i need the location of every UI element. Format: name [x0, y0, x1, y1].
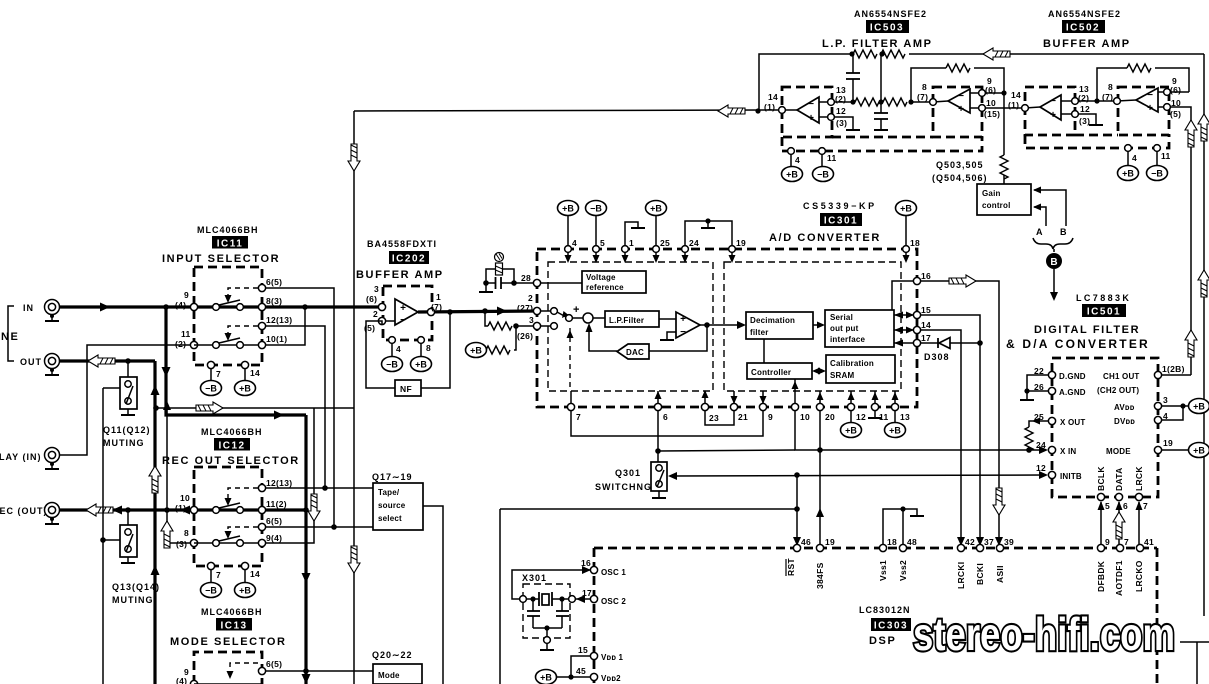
junction IN tap [163, 304, 169, 310]
switch input contacts [541, 310, 550, 312]
svg-text:A: A [1036, 227, 1044, 237]
wire top feedback bus y=54 [759, 54, 853, 111]
arrow controller-sram [815, 370, 823, 372]
switch Q11 muting [103, 361, 137, 415]
svg-text:6(5): 6(5) [266, 659, 282, 669]
junction [850, 99, 855, 104]
svg-text:11: 11 [827, 153, 837, 163]
svg-text:(6): (6) [366, 294, 377, 304]
resistor R bias1 [488, 322, 512, 330]
wire feedback IC502 [1097, 68, 1127, 101]
svg-text:(4): (4) [175, 300, 186, 310]
svg-text:INPUT SELECTOR: INPUT SELECTOR [162, 253, 280, 265]
power +B pin25 [646, 201, 667, 216]
node pin2(5) [378, 317, 385, 324]
wire pin12 ground stub [834, 117, 853, 129]
wire CH1 OUT [1161, 374, 1191, 376]
wire pin12 ground stub IC502 [1078, 114, 1096, 124]
svg-text:21: 21 [738, 412, 748, 422]
svg-text:Gain: Gain [982, 189, 1001, 198]
svg-text:A.GND: A.GND [1059, 388, 1086, 397]
svg-text:−: − [400, 315, 406, 326]
svg-text:Calibration: Calibration [830, 359, 874, 368]
svg-text:13: 13 [900, 412, 910, 422]
svg-text:LRCKO: LRCKO [1134, 560, 1144, 592]
svg-text:10: 10 [986, 98, 996, 108]
label IC503 [866, 20, 909, 33]
wire link IC503-IC502 [985, 107, 1025, 109]
capacitor C503a [846, 54, 860, 102]
wire REC row to x306 [263, 508, 306, 511]
power +B pin18 [896, 201, 917, 216]
node pin24 [682, 246, 689, 253]
box Controller [747, 363, 812, 379]
node pin12 INITB [1048, 471, 1055, 478]
svg-text:PLAY (IN): PLAY (IN) [0, 452, 42, 462]
svg-text:select: select [378, 514, 402, 523]
svg-text:24: 24 [689, 238, 699, 248]
wire 9(6) feedback join [1170, 91, 1189, 93]
svg-text:SWITCHNG: SWITCHNG [595, 482, 652, 492]
node Vss2 pin48 [899, 544, 906, 551]
node pin9(6) [979, 90, 986, 97]
svg-text:28: 28 [521, 273, 531, 283]
wire muting control x103 [102, 388, 104, 684]
node pin11(2) [190, 341, 197, 348]
wire bead branch [486, 269, 496, 283]
svg-text:3: 3 [529, 315, 534, 325]
svg-text:−: − [958, 91, 964, 102]
junction y509 [794, 506, 800, 512]
svg-text:10: 10 [180, 493, 190, 503]
node pin12(3) IC502 [1072, 111, 1079, 118]
svg-text:−: − [808, 99, 814, 110]
arrow up solid x155 [151, 565, 160, 575]
node RST pin46 [793, 544, 800, 551]
wire osc loop [512, 570, 591, 599]
power -B [201, 381, 222, 396]
svg-text:+: + [573, 304, 580, 316]
label IC13 [216, 618, 252, 631]
svg-text:(7): (7) [431, 302, 442, 312]
dashed control bracket row1 [228, 288, 258, 297]
node pin17 [913, 339, 920, 346]
op-amp U503b box [933, 87, 982, 137]
svg-text:12: 12 [1036, 463, 1046, 473]
node pin25 [653, 246, 660, 253]
svg-text:(3): (3) [836, 118, 847, 128]
ground [1089, 124, 1103, 126]
box A/D outer dashed [537, 249, 917, 407]
power -B pin5 [586, 201, 607, 216]
wire 10(1) up to main [266, 307, 305, 345]
wire xtal caps common [533, 627, 562, 629]
wire comparator out [700, 324, 744, 326]
svg-text:CH1 OUT: CH1 OUT [1103, 372, 1140, 381]
svg-text:INITB: INITB [1060, 472, 1082, 481]
svg-text:X301: X301 [522, 573, 547, 583]
svg-text:Q503,505: Q503,505 [936, 160, 984, 170]
IC502 outer dashed bottom [1025, 135, 1169, 148]
svg-text:MUTING: MUTING [103, 438, 145, 448]
wire serial to pin14 [894, 329, 917, 331]
wire pin7 inner [570, 391, 572, 404]
svg-text:6: 6 [663, 412, 668, 422]
brace A/B [1033, 238, 1073, 249]
svg-text:Q13(Q14): Q13(Q14) [112, 582, 160, 592]
wire PLAY vertical [59, 345, 194, 455]
node Vss1 pin18 [879, 544, 886, 551]
wire pin10 to controller arrow up [794, 379, 796, 404]
node BCKI pin37 [976, 544, 983, 551]
wire row partial [194, 683, 262, 684]
junction [849, 51, 854, 56]
wire NF loop [366, 321, 395, 388]
op-amp U502b box [1118, 87, 1169, 135]
svg-text:Vss1: Vss1 [878, 560, 888, 581]
svg-text:15: 15 [921, 305, 931, 315]
svg-text:(7): (7) [917, 92, 928, 102]
op-amp U502a [1040, 95, 1061, 120]
junction D308 [977, 340, 983, 346]
node pin6(5) [258, 667, 265, 674]
svg-text:6(5): 6(5) [266, 277, 282, 287]
diode D308 [921, 338, 980, 349]
svg-text:45: 45 [576, 666, 586, 676]
switch Q301 [651, 462, 667, 498]
junction [704, 322, 710, 328]
wire row2 [194, 344, 262, 346]
box Decimation filter [746, 312, 813, 339]
svg-text:Vss2: Vss2 [898, 560, 908, 581]
Vss bracket + ground [883, 509, 903, 545]
svg-text:(1): (1) [764, 102, 775, 112]
svg-text:out put: out put [830, 324, 859, 333]
node pin28 [533, 279, 540, 286]
node pin12(13) stub [258, 484, 265, 491]
svg-text:MLC4066BH: MLC4066BH [201, 607, 263, 617]
wire 10(5) down to CH1 OUT [1170, 107, 1191, 375]
svg-text:2: 2 [528, 293, 533, 303]
node pin2(27) [533, 307, 540, 314]
svg-text:DSP: DSP [869, 635, 896, 647]
svg-text:(3): (3) [176, 539, 187, 549]
svg-text:6(5): 6(5) [266, 516, 282, 526]
svg-text:LC83012N: LC83012N [859, 605, 911, 615]
node pin10(15) [979, 105, 986, 112]
svg-text:B: B [1060, 227, 1068, 237]
svg-text:15: 15 [578, 645, 588, 655]
comparator U301 [676, 312, 700, 338]
svg-text:12: 12 [836, 106, 846, 116]
node pin4 [788, 148, 795, 155]
svg-text:AVᴅᴅ: AVᴅᴅ [1114, 403, 1135, 412]
svg-text:3: 3 [1163, 395, 1168, 405]
svg-text:23: 23 [709, 413, 719, 423]
wire gnd bracket [1027, 375, 1049, 391]
svg-text:Serial: Serial [830, 313, 853, 322]
node pin15 [913, 311, 920, 318]
box LC7883K dashed [1052, 358, 1158, 497]
wire y509 line [500, 508, 797, 510]
wire DAC feedback [649, 325, 707, 351]
label IC11 [212, 236, 248, 249]
svg-text:20: 20 [825, 412, 835, 422]
node pin8 [418, 337, 425, 344]
label IC501 [1082, 304, 1126, 317]
svg-text:14: 14 [250, 368, 260, 378]
svg-text:LC7883K: LC7883K [1076, 293, 1131, 303]
power -B [201, 583, 222, 598]
svg-text:IC501: IC501 [1087, 307, 1121, 318]
node pin26 AGND [1048, 387, 1055, 394]
svg-text:+: + [1050, 110, 1056, 121]
wire 6(5) stub to tape box [266, 526, 373, 528]
wire XOUT to resistor [1029, 421, 1049, 427]
power +B [782, 167, 803, 182]
box IC12 dashed [194, 467, 262, 566]
wire pin13 arrow up [894, 391, 896, 404]
box IC202 dashed [383, 286, 432, 340]
node pin6(5) stub [258, 284, 265, 291]
wire MODE to +B [1161, 449, 1188, 451]
node pin1(7) [427, 308, 434, 315]
svg-text:8: 8 [184, 528, 189, 538]
wire REC line thick [59, 508, 263, 511]
wire pin20 arrow up [819, 391, 821, 404]
wire pin15 net to BCKI [921, 315, 980, 545]
node pin7 LRCK [1135, 493, 1142, 500]
svg-text:MODE: MODE [1106, 447, 1131, 456]
svg-text:OUT: OUT [20, 357, 42, 367]
svg-text:IC303: IC303 [874, 621, 908, 632]
wire pin14 net to LRCKI [921, 330, 961, 545]
node pin13 [891, 403, 898, 410]
svg-text:D.GND: D.GND [1059, 372, 1086, 381]
resistor R top bus 1 [853, 50, 877, 58]
svg-text:4: 4 [795, 155, 800, 165]
wire vdd bracket [571, 656, 591, 677]
svg-text:9: 9 [768, 412, 773, 422]
svg-text:REC OUT SELECTOR: REC OUT SELECTOR [162, 455, 300, 467]
svg-text:(1): (1) [175, 503, 186, 513]
svg-text:7: 7 [1124, 537, 1129, 547]
svg-text:Controller: Controller [751, 368, 791, 377]
node pin9 [759, 403, 766, 410]
switch contacts row2 [213, 342, 220, 349]
node pin22 DGND [1048, 371, 1055, 378]
junction x334 [331, 524, 337, 530]
node DSP pin9 [1097, 544, 1104, 551]
box DSP dashed edges [594, 547, 1157, 550]
svg-text:AN6554NSFE2: AN6554NSFE2 [1048, 9, 1121, 19]
svg-text:Voltage: Voltage [586, 273, 616, 282]
wire x500 vertical [499, 509, 501, 684]
node pin16 [913, 277, 920, 284]
node pin11(2) [258, 506, 265, 513]
junction [513, 323, 519, 329]
node pin4 DVDD [1154, 416, 1161, 423]
node pin5 [593, 246, 600, 253]
wire OUT line thick [59, 359, 155, 362]
node pin23 [701, 403, 708, 410]
wire B arrow down [1053, 249, 1055, 252]
wire AOTDF1 to DATA [1118, 502, 1120, 545]
switch Q13 muting [103, 510, 137, 563]
junction REC line x167 [164, 507, 170, 513]
wire LRCKO to LRCK [1138, 502, 1140, 545]
junction NF tap [447, 309, 453, 315]
svg-text:8: 8 [1108, 82, 1113, 92]
wire 12(13) stub to tape box [266, 487, 373, 489]
junction [878, 99, 883, 104]
junction x820 [817, 447, 823, 453]
svg-text:AN6554NSFE2: AN6554NSFE2 [854, 9, 927, 19]
node pin10(1) [190, 506, 197, 513]
switch arm row1 [219, 503, 240, 508]
wire pin6 to pin10 [658, 450, 795, 451]
wire NF right [421, 312, 450, 388]
node B circle [1046, 253, 1062, 269]
node pin7 [567, 403, 574, 410]
wire DFBDK to BCLK [1100, 502, 1102, 545]
wire 6(5) stub to x334 [266, 288, 334, 527]
svg-text:LRCK: LRCK [1134, 466, 1144, 491]
junction [511, 280, 517, 286]
hollow arrow up x167 below REC [161, 521, 173, 548]
capacitor C503b [874, 54, 888, 129]
svg-text:SRAM: SRAM [830, 371, 854, 380]
node pin12(13) stub [258, 322, 265, 329]
svg-text:18: 18 [887, 537, 897, 547]
wire row2 [194, 542, 262, 544]
DAC pentagon [617, 344, 649, 359]
connector REC jack [45, 503, 60, 525]
node pin11 [871, 403, 878, 410]
svg-text:1: 1 [629, 238, 634, 248]
junction [908, 99, 913, 104]
node OSC1 pin16 [590, 566, 597, 573]
svg-text:REC (OUT): REC (OUT) [0, 506, 48, 516]
ground pin11 [874, 411, 876, 417]
wire output thick [418, 311, 537, 312]
bias network: wire [485, 311, 488, 326]
node pin13(2) IC502 [1072, 98, 1079, 105]
node pin4 IC502 [1125, 145, 1132, 152]
svg-text:Vᴅᴅ2: Vᴅᴅ2 [601, 674, 621, 683]
svg-text:+: + [808, 113, 814, 124]
dashed control bracket [228, 488, 258, 499]
node pin21 [730, 403, 737, 410]
node pin11 [819, 148, 826, 155]
node VDD1 pin15 [590, 652, 597, 659]
label RST vertical [786, 558, 796, 576]
dashed control bracket row2 [228, 527, 258, 531]
bracket pins23-21 [705, 411, 734, 425]
wire tape out right [423, 506, 443, 684]
node pin25 XOUT [1048, 417, 1055, 424]
svg-text:+: + [1147, 103, 1153, 114]
svg-text:(26): (26) [517, 331, 533, 341]
node pin19 [729, 246, 736, 253]
box IC13 dashed partial [194, 652, 262, 684]
box NF [395, 380, 421, 396]
wire Q301 base from RST net [672, 475, 1044, 476]
op-amp U503a [797, 97, 819, 123]
svg-text:(5): (5) [1170, 109, 1181, 119]
svg-text:D308: D308 [924, 352, 950, 362]
box Tape/source select [373, 483, 423, 530]
node pin10 [791, 403, 798, 410]
node pin1 [622, 246, 629, 253]
resistor R feedback 502 [1127, 64, 1151, 72]
power +B mode [1189, 443, 1209, 458]
svg-text:8: 8 [922, 82, 927, 92]
svg-text:DATA: DATA [1114, 467, 1124, 491]
svg-text:CS5339−KP: CS5339−KP [803, 201, 877, 211]
svg-text:10: 10 [800, 412, 810, 422]
junction Q11 tap [125, 358, 131, 364]
node pin9(4) [190, 303, 197, 310]
wire control bus y408 [156, 407, 354, 409]
svg-text:11: 11 [1161, 151, 1171, 161]
svg-text:+: + [958, 104, 964, 115]
capacitor C input [486, 277, 537, 289]
wire thick down from IN x166 [166, 307, 306, 415]
power +B vdd [536, 670, 557, 684]
wire 9(6) to gain tap [985, 92, 1004, 94]
svg-text:(1): (1) [1008, 100, 1019, 110]
wire OSC2 to crystal [576, 598, 591, 600]
wire pin12 arrow up [850, 391, 852, 404]
hollow arrow left on top bus [983, 48, 1010, 60]
junction [1001, 90, 1006, 95]
switch arm row2 [219, 536, 240, 541]
node pin12 [847, 403, 854, 410]
node pin4 [565, 246, 572, 253]
svg-text:5: 5 [600, 238, 605, 248]
node pin10(1) [258, 341, 265, 348]
svg-text:12(13): 12(13) [266, 315, 292, 325]
svg-text:& D/A CONVERTER: & D/A CONVERTER [1006, 337, 1150, 351]
node pin6 [654, 403, 661, 410]
svg-text:MODE SELECTOR: MODE SELECTOR [170, 636, 287, 648]
svg-text:DIGITAL FILTER: DIGITAL FILTER [1034, 324, 1140, 336]
svg-text:−: − [1050, 96, 1056, 107]
node OSC2 pin17 [590, 595, 597, 602]
box Calibration SRAM [826, 355, 895, 383]
node DSP pin7 [1116, 544, 1123, 551]
svg-text:39: 39 [1004, 537, 1014, 547]
svg-text:IN: IN [23, 303, 34, 313]
junction x325 [322, 485, 328, 491]
hollow arrow down on left vertical [348, 144, 360, 171]
wire pin16 net to ASII [921, 281, 999, 545]
bracket line [8, 306, 14, 361]
dashed control bracket row2 [228, 326, 258, 334]
svg-text:L.P. FILTER AMP: L.P. FILTER AMP [822, 38, 933, 50]
power -B [813, 167, 834, 182]
svg-text:25: 25 [660, 238, 670, 248]
svg-text:Q20∼22: Q20∼22 [372, 650, 413, 660]
svg-text:(2): (2) [175, 339, 186, 349]
junction [1094, 98, 1099, 103]
svg-text:4: 4 [572, 238, 577, 248]
node pin8(3) [258, 303, 265, 310]
svg-text:RST: RST [786, 558, 796, 576]
wire A select [1034, 207, 1046, 226]
wire pin11 arrow up [874, 391, 876, 404]
